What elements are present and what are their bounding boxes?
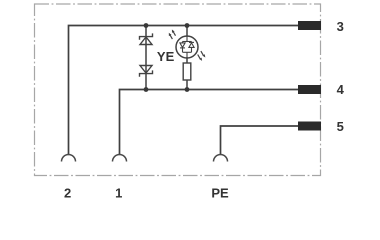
svg-text:3: 3 bbox=[337, 19, 344, 34]
svg-text:4: 4 bbox=[337, 82, 345, 97]
svg-text:PE: PE bbox=[211, 185, 229, 200]
svg-text:1: 1 bbox=[115, 185, 122, 200]
svg-text:YE: YE bbox=[157, 49, 175, 64]
svg-text:2: 2 bbox=[64, 185, 71, 200]
svg-text:5: 5 bbox=[337, 119, 344, 134]
